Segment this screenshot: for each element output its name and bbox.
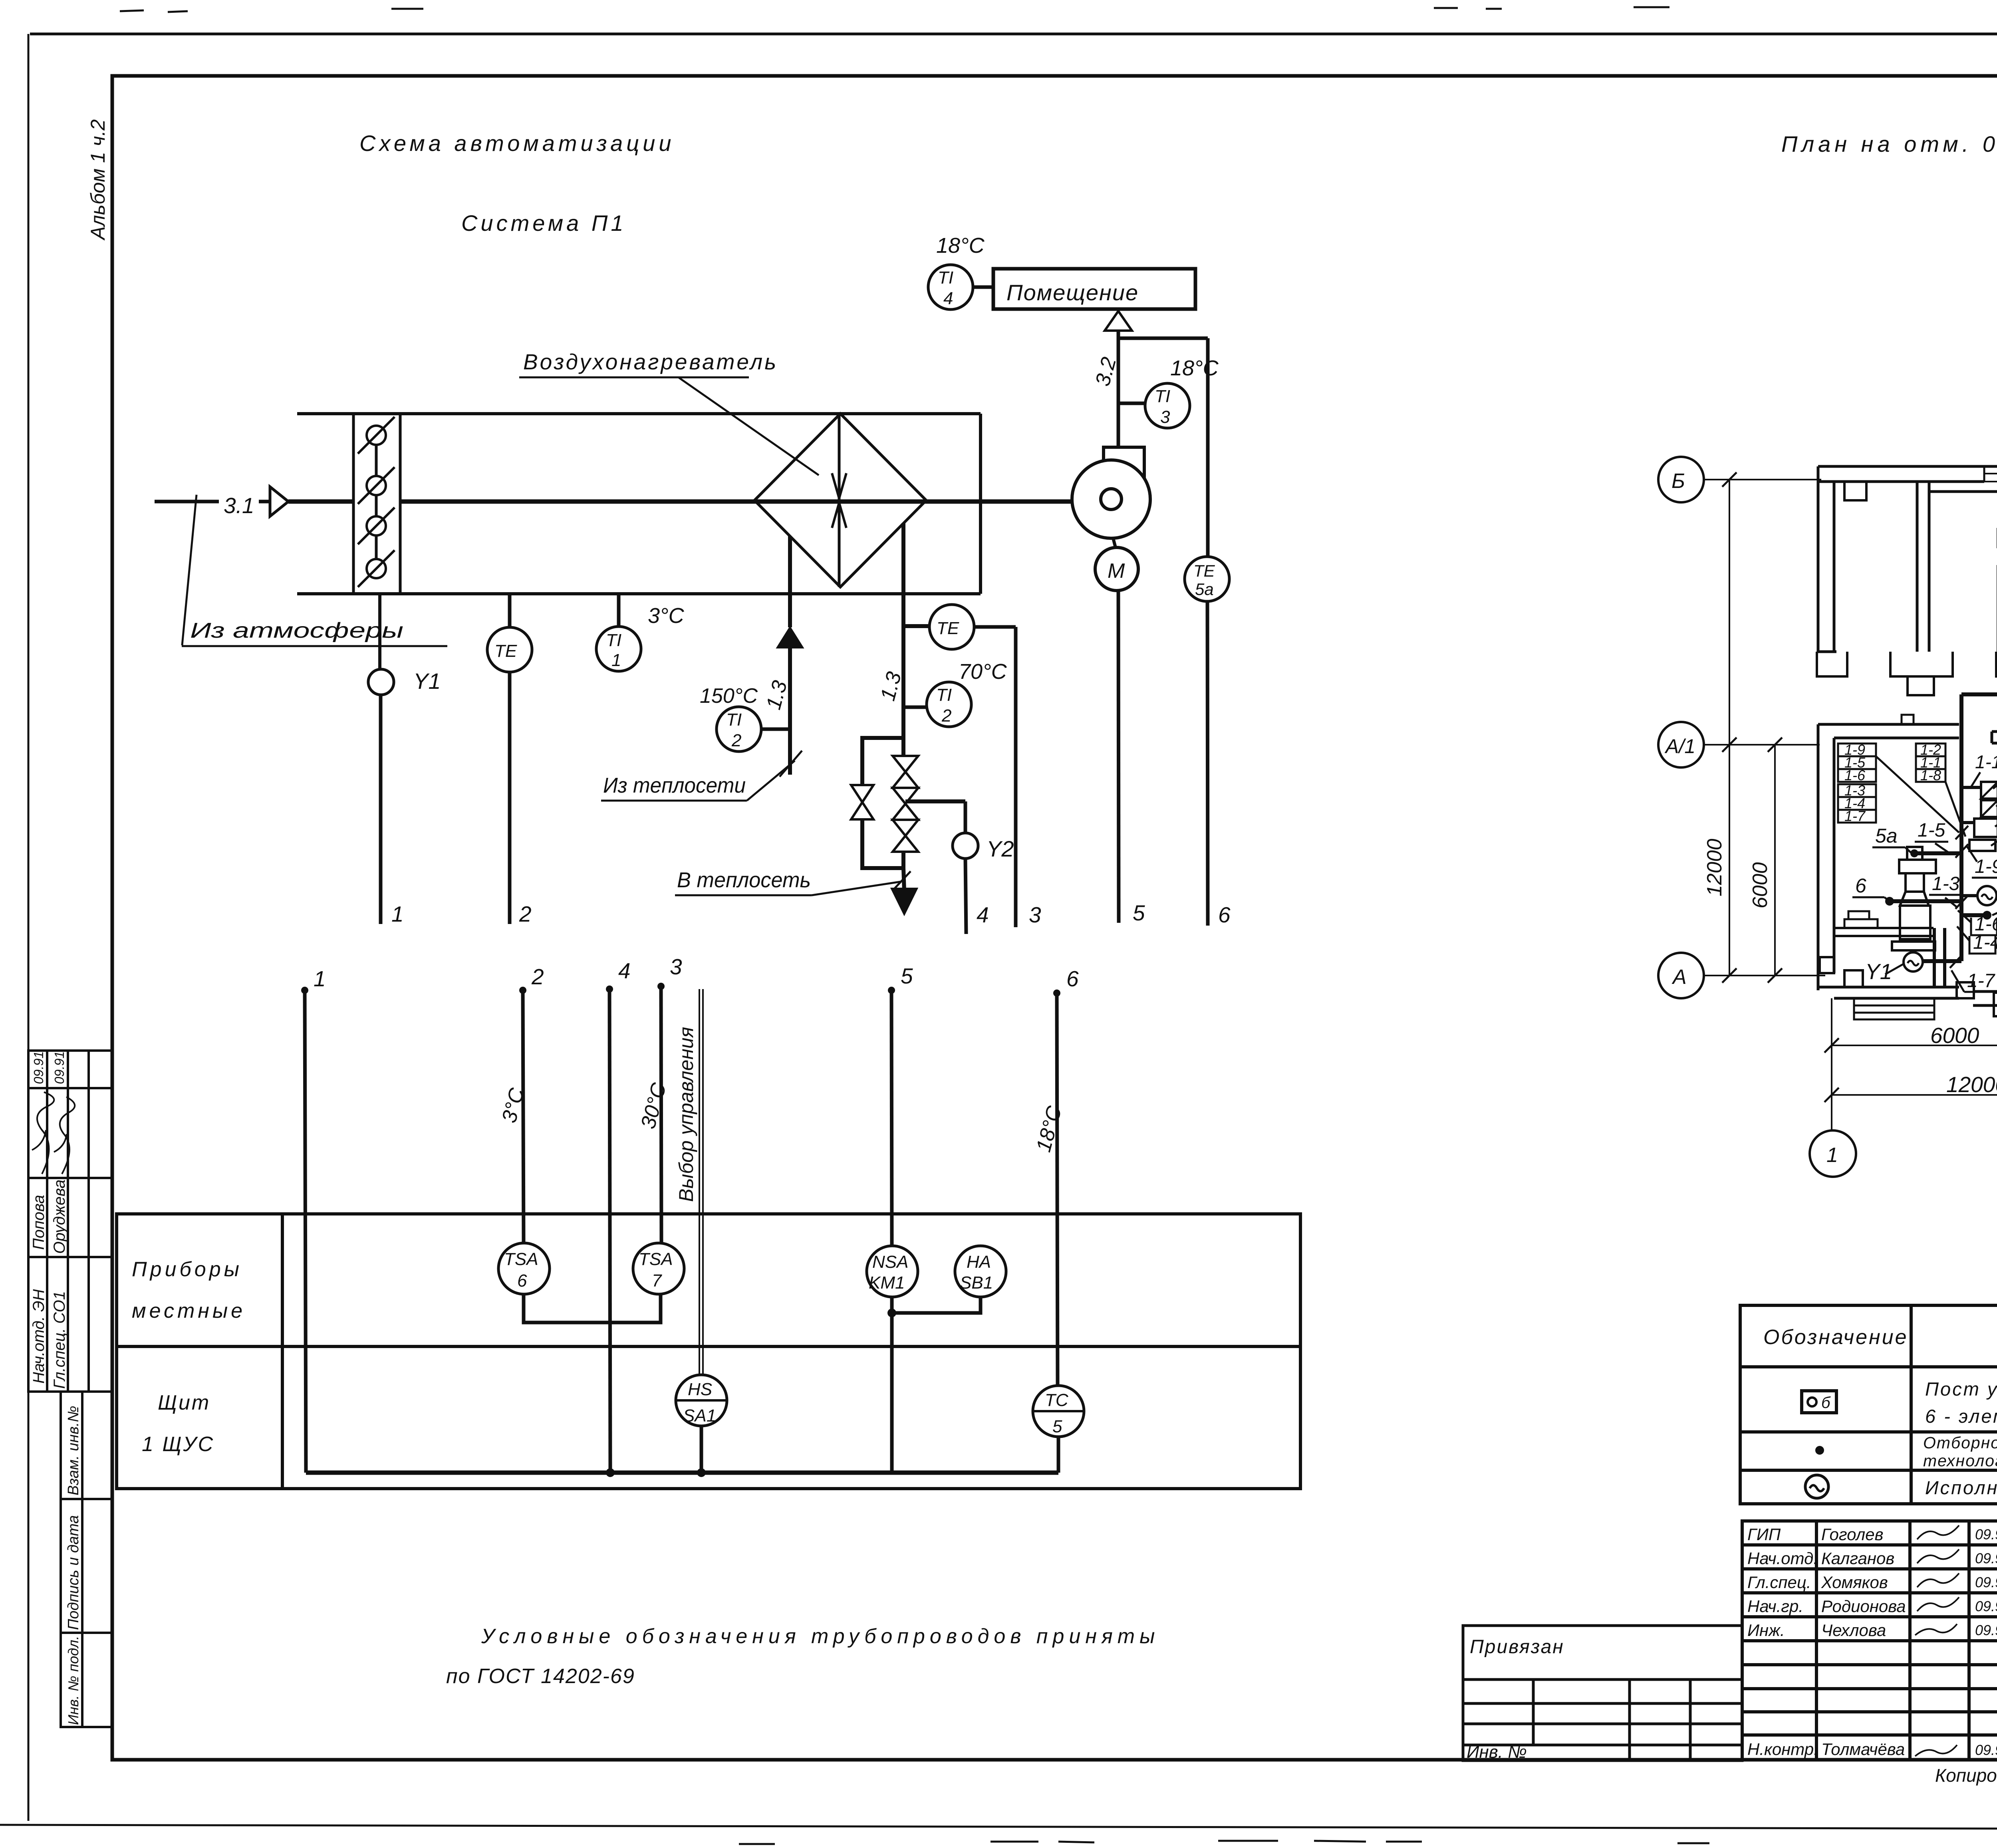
svg-text:09.91: 09.91 [1975, 1742, 1997, 1758]
top wall left block [1818, 466, 1997, 482]
vent chamber bottom wall [1818, 987, 1959, 998]
wire 1 from damper to Y1 [378, 594, 381, 670]
svg-text:Оруджева: Оруджева [51, 1180, 68, 1254]
vent chamber top wall [1818, 724, 1959, 738]
svg-text:Попова: Попова [30, 1195, 48, 1250]
svg-text:1-6: 1-6 [1844, 767, 1866, 783]
return to heat network [903, 868, 904, 891]
svg-text:Привязан: Привязан [1470, 1636, 1564, 1658]
inlet arrow [270, 487, 288, 516]
leader Из атмосферы [182, 495, 197, 645]
svg-text:12000: 12000 [1946, 1072, 1997, 1097]
left stamp: titles row grid [28, 1257, 112, 1392]
svg-text:TSA: TSA [504, 1249, 538, 1269]
chamber top tab [1902, 715, 1914, 724]
louver grille below chamber [1854, 998, 1934, 1019]
svg-text:Воздухонагреватель: Воздухонагреватель [523, 349, 778, 374]
instrument TI2 (return) [927, 682, 971, 727]
svg-text:09.91: 09.91 [1975, 1550, 1997, 1566]
svg-text:Нач.отд.: Нач.отд. [1747, 1549, 1818, 1568]
svg-text:Взам. инв.№: Взам. инв.№ [65, 1406, 82, 1495]
ledge at left wall [1834, 927, 1933, 929]
svg-text:1-9: 1-9 [1975, 856, 1997, 877]
instrument HS SA1 [676, 1375, 727, 1426]
pilaster below top wall [1844, 482, 1866, 500]
svg-text:1.3: 1.3 [762, 678, 792, 712]
wire 1 lower [301, 987, 308, 994]
svg-text:Гоголев: Гоголев [1821, 1525, 1884, 1544]
svg-text:09.91: 09.91 [52, 1051, 67, 1084]
small table Привязан [1463, 1626, 1742, 1761]
scan artifact dashes bottom [739, 1841, 1709, 1844]
svg-text:Из атмосферы: Из атмосферы [190, 619, 403, 642]
button SB2 [1969, 840, 1995, 851]
wire 5 from M [1118, 591, 1119, 923]
svg-text:Инж.: Инж. [1747, 1621, 1785, 1640]
svg-text:Гл.спец. СО1: Гл.спец. СО1 [51, 1291, 68, 1389]
label stack B [1916, 744, 1945, 782]
scan artifact dashes top [120, 7, 1997, 17]
svg-text:Альбом 1 ч.2: Альбом 1 ч.2 [87, 119, 109, 241]
left stamp: signature 2 [54, 1097, 75, 1174]
svg-text:по ГОСТ 14202-69: по ГОСТ 14202-69 [446, 1665, 635, 1688]
instrument TI4 [928, 265, 973, 309]
stubs from trunk [1961, 786, 1981, 789]
svg-text:TI: TI [936, 685, 952, 705]
svg-text:5а: 5а [1875, 825, 1898, 847]
bottom wall right block [1973, 991, 1997, 1005]
svg-text:Б: Б [1671, 470, 1685, 493]
svg-text:18°C: 18°C [1032, 1103, 1066, 1154]
svg-text:70°C: 70°C [959, 660, 1007, 684]
inlet flow line 3.1 [155, 500, 219, 504]
svg-text:6000: 6000 [1749, 862, 1772, 908]
svg-text:Обозначение: Обозначение [1763, 1326, 1908, 1349]
air heater diamond [754, 414, 926, 587]
svg-text:1-3: 1-3 [1932, 873, 1960, 894]
instrument TC5 [1033, 1386, 1084, 1437]
signatures in title block [1915, 1525, 1959, 1756]
left stamp: Подпись и дата box [61, 1499, 112, 1633]
vent chamber left wall [1818, 724, 1834, 990]
return arrow down [891, 888, 917, 914]
svg-text:Схема автоматизации: Схема автоматизации [359, 131, 675, 156]
svg-text:HA: HA [967, 1252, 991, 1272]
actuator Y1 [368, 669, 394, 695]
instrument TSA6 [498, 1243, 550, 1294]
wire NSA to bus [890, 1313, 894, 1473]
svg-text:А/1: А/1 [1664, 735, 1695, 757]
heat supply pipe 1.3 [788, 536, 792, 627]
svg-text:09.91: 09.91 [1975, 1598, 1997, 1614]
svg-text:Пост управления кнопочный: Пост управления кнопочный [1925, 1378, 1997, 1400]
instrument TE5a [1185, 557, 1229, 601]
svg-text:6 - элементов: 6 - элементов [1925, 1406, 1997, 1427]
axis circle Б [1658, 457, 1704, 502]
svg-text:6: 6 [1218, 902, 1231, 927]
svg-text:1-4: 1-4 [1973, 932, 1997, 953]
wire 6 from TE5a [1207, 601, 1208, 926]
starter 1КМ2 [1981, 800, 1997, 817]
page left border line [28, 34, 30, 1821]
damper blade 4 [367, 559, 386, 578]
svg-text:18°C: 18°C [1170, 356, 1219, 380]
unit at left wall [1848, 911, 1869, 919]
svg-text:TE: TE [1193, 561, 1215, 580]
branch to Y2 [905, 799, 965, 803]
vertical dim line 6000 [1774, 745, 1776, 976]
bottom piers [1844, 970, 1863, 987]
line 3.2 up from fan [1117, 330, 1120, 447]
svg-text:Нач.гр.: Нач.гр. [1747, 1597, 1803, 1616]
wire 4 lower [606, 985, 613, 993]
svg-text:3.2: 3.2 [1091, 355, 1121, 389]
svg-text:TSA: TSA [639, 1249, 673, 1269]
svg-text:технологическое оборудование: технологическое оборудование [1923, 1451, 1997, 1470]
svg-text:4: 4 [977, 902, 989, 927]
cable 1-8 horizontal [1961, 692, 1997, 696]
niche partition foot [1994, 993, 1997, 1016]
svg-text:Хомяков: Хомяков [1821, 1573, 1888, 1592]
svg-text:Подпись и дата: Подпись и дата [65, 1515, 82, 1630]
svg-text:А: А [1671, 966, 1687, 989]
left stamp: Инв.№ подл. box [61, 1633, 112, 1727]
svg-text:Система П1: Система П1 [461, 210, 627, 236]
svg-text:09.91: 09.91 [31, 1051, 46, 1084]
svg-text:30°C: 30°C [637, 1080, 671, 1131]
svg-text:TI: TI [606, 631, 621, 650]
corridor wall [1929, 490, 1997, 493]
svg-text:12000: 12000 [1703, 839, 1726, 896]
heat return pipe [901, 523, 905, 626]
svg-text:Помещение: Помещение [1006, 280, 1139, 305]
svg-text:Из теплосети: Из теплосети [603, 773, 746, 797]
svg-text:местные: местные [132, 1299, 246, 1323]
svg-text:TI: TI [726, 710, 742, 730]
svg-text:Отборное устройство или датчик: Отборное устройство или датчик, встраива… [1923, 1434, 1997, 1452]
starter 1КМ1 [1981, 782, 1997, 799]
svg-text:Толмачёва: Толмачёва [1821, 1740, 1905, 1759]
svg-text:4: 4 [943, 289, 953, 308]
svg-text:TE: TE [937, 619, 959, 638]
supply arrow up [777, 627, 803, 648]
svg-text:5: 5 [901, 964, 913, 988]
actuator Y1 plan [1904, 952, 1923, 972]
svg-text:План на отм. 0.000: План на отм. 0.000 [1781, 131, 1997, 157]
panel 1ЩУС [1974, 819, 1997, 837]
AHU stack [1892, 860, 1936, 950]
svg-text:Родионова: Родионова [1821, 1597, 1906, 1616]
return pipe continues to valves [901, 626, 905, 756]
supply air triangle [1105, 311, 1132, 331]
svg-text:7: 7 [652, 1271, 662, 1291]
left wall foot [1817, 652, 1847, 676]
svg-text:2: 2 [531, 964, 544, 989]
wire 5 lower [888, 987, 895, 994]
svg-text:б: б [1821, 1394, 1831, 1412]
svg-text:Гл.спец.: Гл.спец. [1747, 1573, 1811, 1592]
wire TSA6-TSA7 link [524, 1295, 661, 1323]
svg-text:3: 3 [1160, 407, 1170, 427]
svg-text:1-7: 1-7 [1844, 808, 1866, 824]
svg-text:2: 2 [731, 731, 741, 750]
actuator Y2 [953, 833, 978, 859]
wire NSA-HA link [892, 1297, 981, 1313]
inner wall 1 [1917, 482, 1929, 652]
svg-text:Y1: Y1 [1865, 959, 1892, 984]
instrument TSA7 [633, 1243, 684, 1294]
svg-text:18°C: 18°C [936, 234, 985, 258]
svg-text:TI: TI [938, 268, 953, 288]
actuator Y2 plan [1977, 886, 1997, 905]
damper blade 3 [367, 516, 386, 535]
grid circle 1 [1810, 1130, 1856, 1177]
instrument TE below duct [508, 594, 512, 628]
svg-text:1: 1 [1826, 1144, 1838, 1167]
svg-text:150°C: 150°C [700, 684, 758, 708]
inner wall 1 T-foot [1890, 652, 1953, 676]
bus line [306, 1471, 1058, 1475]
svg-text:09.91: 09.91 [1975, 1622, 1997, 1638]
svg-text:Инв. №: Инв. № [1467, 1742, 1527, 1762]
svg-text:В теплосеть: В теплосеть [677, 868, 811, 892]
corridor bottom wall [1992, 732, 1997, 743]
control valve stack [893, 756, 918, 788]
svg-text:HS: HS [688, 1380, 712, 1399]
page bottom border line [0, 1825, 1997, 1830]
svg-text:ГИП: ГИП [1747, 1525, 1781, 1544]
instrument TI3 [1145, 383, 1190, 428]
svg-text:SB1: SB1 [960, 1273, 993, 1293]
instrument HA SB1 [955, 1246, 1006, 1297]
svg-text:3.1: 3.1 [224, 493, 254, 518]
svg-text:6: 6 [1066, 966, 1079, 991]
instrument NSA KM1 [867, 1246, 918, 1297]
svg-text:Калганов: Калганов [1821, 1549, 1894, 1568]
svg-text:Копировал: Сидорова: Копировал: Сидорова [1935, 1765, 1997, 1786]
svg-text:5: 5 [1052, 1417, 1062, 1436]
svg-text:09.91: 09.91 [1975, 1526, 1997, 1543]
svg-text:6: 6 [517, 1271, 527, 1291]
svg-text:1: 1 [391, 902, 404, 926]
svg-text:1-8: 1-8 [1920, 767, 1941, 783]
fan circle [1072, 460, 1150, 538]
fan volute [1104, 447, 1144, 511]
bypass loop [862, 738, 903, 785]
vertical dim line 12000 [1729, 480, 1730, 976]
pier at chamber left wall [1820, 957, 1834, 973]
left stamp: Взам. инв.№ box [61, 1392, 112, 1499]
svg-text:5a: 5a [1195, 580, 1214, 599]
leader stack A [1876, 756, 1959, 833]
wire HS SA1 to bus [700, 1426, 703, 1473]
axis circle А [1658, 953, 1704, 998]
trunk cable [1959, 694, 1963, 961]
damper box [353, 414, 400, 594]
svg-text:TI: TI [1155, 387, 1170, 406]
wc pier foot [1996, 652, 1997, 676]
fan hub [1101, 489, 1122, 510]
svg-text:2: 2 [519, 902, 532, 926]
instrument TE (return) [929, 605, 974, 649]
instrument TI1 below duct [617, 594, 621, 627]
svg-text:3: 3 [670, 954, 682, 979]
window top-left [1984, 473, 1997, 474]
svg-text:3°C: 3°C [648, 604, 685, 628]
heater center line with arrows [838, 414, 841, 587]
flow line through duct [288, 500, 353, 504]
svg-text:1-5: 1-5 [1918, 820, 1945, 841]
svg-text:Щит: Щит [158, 1391, 210, 1414]
svg-text:Y2: Y2 [987, 836, 1014, 861]
discharge duct [1934, 928, 1945, 986]
label stack A [1838, 744, 1876, 823]
svg-text:KM1: KM1 [869, 1273, 905, 1293]
svg-text:6: 6 [1855, 874, 1866, 897]
svg-text:1 ЩУС: 1 ЩУС [142, 1433, 214, 1456]
wire 2 from TE [508, 672, 512, 924]
left stamp: signatures block grid [28, 1051, 112, 1257]
branch to TE5a [1118, 337, 1208, 340]
svg-text:2: 2 [941, 706, 951, 726]
svg-text:Исполнительный механизм с э: Исполнительный механизм с электроприводо… [1925, 1477, 1997, 1498]
wire 6 lower [1053, 989, 1060, 997]
motor M [1095, 547, 1138, 591]
wire 3 lower [657, 983, 665, 990]
svg-text:Условные обозначения трубопр: Условные обозначения трубопроводов приня… [481, 1625, 1159, 1648]
instrument TI2 (supply) [717, 707, 761, 751]
svg-text:1: 1 [314, 966, 326, 991]
horizontal dim 6000 [1832, 1045, 1997, 1046]
svg-text:SA1: SA1 [683, 1406, 716, 1426]
svg-text:Выбор управления: Выбор управления [675, 1027, 697, 1202]
svg-text:3: 3 [1029, 902, 1041, 927]
wire 3 from TE return [974, 625, 1016, 629]
legend symbol actuator [1805, 1475, 1828, 1498]
legend symbol button post [1802, 1391, 1836, 1413]
horizontal dim 12000 [1832, 1094, 1997, 1096]
svg-text:1: 1 [611, 650, 621, 670]
svg-text:Нач.отд. ЭН: Нач.отд. ЭН [30, 1289, 48, 1384]
svg-text:4: 4 [618, 958, 631, 983]
axis circle А/1 [1658, 722, 1704, 767]
left wall top block [1818, 466, 1836, 652]
page top border line [30, 33, 1997, 36]
wire 2 lower [519, 987, 526, 994]
left stamp: signature 1 [32, 1092, 54, 1174]
control selection double line [699, 989, 700, 1375]
svg-text:Приборы: Приборы [132, 1258, 242, 1281]
wire TC5 to bus [1057, 1437, 1060, 1473]
svg-text:Н.контр.: Н.контр. [1747, 1740, 1818, 1759]
svg-text:Инв. № подл.: Инв. № подл. [65, 1636, 81, 1725]
svg-text:M: M [1108, 559, 1125, 583]
trunk slashes [1950, 826, 1968, 968]
svg-text:1-1: 1-1 [1975, 751, 1997, 772]
damper blade 2 [367, 476, 386, 495]
wire 4 from Y2 [965, 859, 966, 934]
svg-text:1-7: 1-7 [1967, 970, 1996, 991]
bypass valve [851, 785, 873, 819]
svg-text:TE: TE [494, 641, 517, 661]
svg-text:6000: 6000 [1930, 1023, 1979, 1048]
svg-text:TC: TC [1045, 1390, 1069, 1410]
svg-text:5: 5 [1133, 900, 1145, 925]
svg-text:Y1: Y1 [413, 668, 441, 694]
legend symbol sensor dot [1815, 1446, 1824, 1455]
svg-text:NSA: NSA [872, 1252, 908, 1272]
instrument table [117, 1214, 1300, 1489]
damper blades link [375, 435, 378, 569]
svg-text:Чехлова: Чехлова [1821, 1621, 1886, 1640]
damper blade 1 [367, 426, 386, 445]
svg-text:09.91: 09.91 [1975, 1574, 1997, 1590]
duct outline [297, 414, 981, 594]
room box Помещение [993, 269, 1195, 309]
